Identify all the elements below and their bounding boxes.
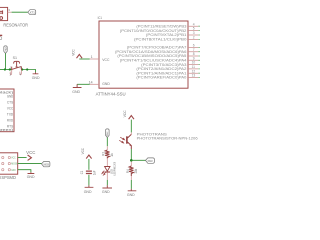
svg-text:(green): (green) [0,128,13,132]
svg-text:XT1: XT1 [30,11,36,15]
svg-text:(PCINT8/XTAL1/CLKI)PB0: (PCINT8/XTAL1/CLKI)PB0 [134,38,187,42]
svg-text:1: 1 [91,55,93,59]
junction node [130,159,133,162]
ground (IC) [72,84,81,94]
wire tag to R2 [106,138,108,147]
svg-text:VCC: VCC [26,150,35,155]
ISP pads [2,156,4,158]
resonator [0,7,12,20]
svg-text:1uF: 1uF [93,171,97,176]
net tag above switch [4,46,8,54]
svg-text:RESONATOR: RESONATOR [3,23,28,28]
svg-text:VCC: VCC [102,58,110,62]
wire gnd pin14 [77,83,90,85]
ISP header box [0,153,18,174]
svg-text:VCC: VCC [81,148,85,155]
ground (ISP) [27,172,35,179]
edge symbol (cut) [0,34,2,36]
phototransistor Q1 [119,132,197,149]
svg-text:VCC: VCC [123,110,127,117]
wire tag down to bus [5,53,7,69]
svg-text:CTS: CTS [7,100,14,104]
svg-text:(PCINT11/RESET/DW)PB3: (PCINT11/RESET/DW)PB3 [136,24,186,28]
svg-text:ATTINY44-SSU: ATTINY44-SSU [96,91,126,96]
svg-text:4: 4 [193,22,195,26]
wire left segment [0,69,12,71]
wire vcc pin1 [79,58,89,60]
IC right pins [188,26,198,77]
ground (LED) [102,185,112,194]
net tag XTAL1 [28,10,36,15]
svg-text:PA3: PA3 [148,159,154,163]
svg-text:VCC: VCC [7,106,14,110]
LED1 [102,158,117,175]
wire ISP gnd [18,170,31,173]
resistor R4 [126,162,138,177]
svg-text:IC1: IC1 [98,15,103,20]
VCC symbol (C1) [81,148,92,159]
svg-text:3: 3 [8,8,10,12]
IC1 ATTINY44 box [99,21,188,88]
wire R4 to gnd [130,176,132,180]
svg-text:PHOTOTRANSISTOR-NPN-1206: PHOTOTRANSISTOR-NPN-1206 [137,136,198,140]
svg-text:GND: GND [7,94,14,98]
svg-text:(PCINT0/AREF/ADC0)PA0: (PCINT0/AREF/ADC0)PA0 [136,76,186,80]
svg-text:5: 5 [193,27,195,31]
svg-text:MOSI: MOSI [44,162,50,166]
wire LED to gnd [106,172,108,180]
svg-text:S1: S1 [13,55,17,60]
net tag above LED [106,129,110,138]
svg-text:2: 2 [193,36,195,40]
svg-text:MOSI: MOSI [11,162,17,166]
FTDI header J1 box [0,89,14,132]
ground (switch) [32,72,40,79]
svg-text:10k: 10k [134,169,138,174]
svg-text:LEDFAB1206: LEDFAB1206 [113,162,117,176]
wire vcc to C1 [88,159,90,170]
svg-text:C1: C1 [80,171,84,175]
junction dots [4,68,6,70]
switch S1 [10,55,22,77]
svg-text:GND: GND [32,75,40,80]
svg-text:GND: GND [127,192,135,197]
svg-text:R4: R4 [126,169,130,173]
wires at IC right pins [198,26,200,77]
wire ISP mosi to tag [18,163,42,165]
svg-text:TXD: TXD [7,112,14,116]
ground (R4) [127,189,136,197]
wire photo to junction [130,149,132,160]
svg-text:GND: GND [11,168,15,172]
ground (C1) [84,185,94,193]
svg-text:3: 3 [193,31,195,35]
svg-text:GND: GND [102,189,110,194]
svg-text:1k: 1k [110,153,114,157]
svg-text:AVRISPSMD: AVRISPSMD [0,175,16,180]
net tag MOSI [42,161,50,166]
svg-text:(PCINT10/INT0/OC0A/CKOUT)PB2: (PCINT10/INT0/OC0A/CKOUT)PB2 [120,29,187,33]
svg-text:GND: GND [102,82,110,86]
wire junction to tag [131,159,145,161]
wire resonator to tag [12,11,28,13]
svg-text:VCC: VCC [11,156,15,160]
capacitor C1 [80,171,97,176]
svg-text:GND: GND [84,189,92,194]
net tag sense [146,158,155,163]
pin 14 GND [90,83,99,85]
resistor R2 [102,146,114,158]
wire C1 to gnd [88,175,90,186]
svg-text:GND: GND [72,89,80,94]
svg-text:GND: GND [27,174,35,179]
svg-text:13: 13 [192,74,196,78]
pin 1 VCC [90,58,99,60]
VCC symbol (photo) [123,110,134,119]
VCC symbol (ISP) [26,150,35,160]
svg-text:14: 14 [89,80,93,84]
svg-text:VCC: VCC [72,49,76,56]
VCC symbol left of IC [72,49,83,58]
svg-text:R2: R2 [102,152,106,156]
wire right segment to gnd corner [21,70,35,73]
svg-text:(PCINT9/XTAL2)PB1: (PCINT9/XTAL2)PB1 [146,33,187,37]
svg-text:RXD: RXD [7,118,14,122]
wire vcc to phototransistor [130,120,132,133]
wire ISP vcc [18,157,27,159]
